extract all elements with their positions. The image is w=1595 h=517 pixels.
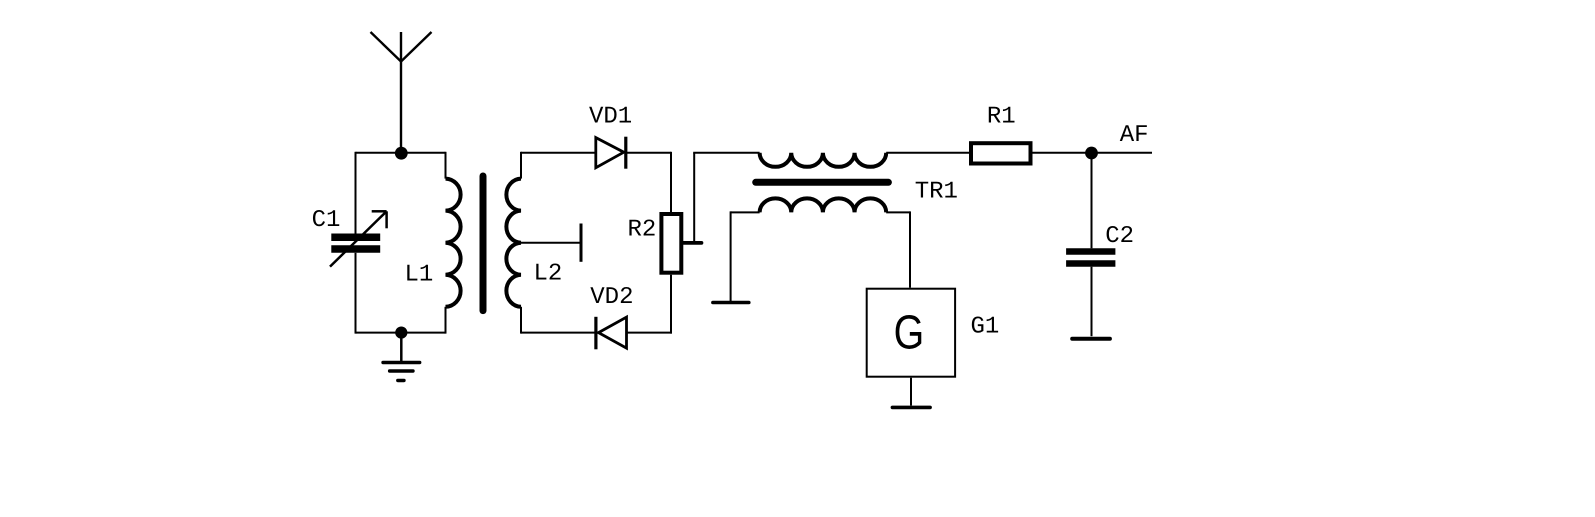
wire R1 to AF output — [1033, 152, 1153, 154]
transformer TR1 primary winding — [760, 153, 887, 167]
wire G1 bottom lead — [910, 378, 912, 406]
svg-text:R1: R1 — [987, 103, 1016, 130]
node junction AF/C2 — [1085, 147, 1098, 160]
capacitor C1 (variable) — [330, 211, 387, 266]
ground (chassis) at TR1 secondary — [713, 301, 749, 305]
inductor L1 — [446, 179, 461, 307]
wire L1 top lead — [445, 152, 447, 179]
wire secondary right down to G1 — [909, 211, 911, 287]
svg-text:G: G — [894, 306, 925, 359]
svg-text:G1: G1 — [970, 313, 999, 340]
transformer TR1 secondary winding — [760, 198, 887, 212]
wire L1 bottom lead — [445, 307, 447, 334]
wire L2 center tap — [521, 242, 581, 244]
wire wiper up to TR1 primary — [693, 153, 695, 243]
wire C2 bottom lead — [1091, 267, 1093, 337]
svg-text:L1: L1 — [404, 262, 433, 289]
svg-text:TR1: TR1 — [915, 179, 958, 206]
node junction bottom wire/ground — [395, 327, 407, 339]
wire top of tank loop — [356, 152, 446, 154]
wire corner down to R2 — [670, 152, 672, 213]
wire VD1 to corner — [626, 152, 671, 154]
wire bottom rail to VD2 — [521, 332, 599, 334]
svg-text:VD1: VD1 — [589, 104, 632, 131]
wire left edge above C1 — [355, 152, 357, 234]
inductor L2 — [506, 179, 521, 307]
wire bottom of tank loop — [356, 332, 446, 334]
transformer core L1/L2 — [480, 176, 487, 311]
ground (chassis) at G1 — [892, 406, 930, 410]
svg-text:AF: AF — [1120, 122, 1149, 149]
diode VD1 — [596, 137, 626, 169]
svg-text:R2: R2 — [627, 217, 656, 244]
ground (chassis) at C2 — [1072, 337, 1110, 341]
wire junction down to C2 — [1091, 153, 1093, 249]
resistor R2 — [661, 214, 681, 273]
wire R2 bottom lead — [670, 275, 672, 334]
wire antenna ground stem — [400, 333, 403, 362]
antenna — [371, 32, 432, 153]
wire to TR1 primary — [693, 152, 759, 154]
svg-text:VD2: VD2 — [590, 284, 633, 311]
wire top rail L2 to VD1 — [521, 152, 596, 154]
svg-text:C2: C2 — [1105, 223, 1134, 250]
resistor R1 — [971, 143, 1031, 163]
wire TR1 primary to R1 — [886, 152, 969, 154]
node junction antenna/top wire — [395, 147, 408, 160]
generator G1 — [867, 289, 955, 377]
wire VD2 to corner — [627, 332, 673, 334]
svg-text:C1: C1 — [312, 207, 341, 234]
wire secondary left down — [730, 211, 732, 301]
capacitor C2 — [1066, 252, 1115, 264]
wire secondary left lead — [731, 211, 760, 213]
wire secondary right lead — [886, 211, 910, 213]
transformer TR1 core — [756, 179, 889, 186]
diode VD2 — [596, 317, 627, 350]
wire L2 bottom lead — [520, 307, 522, 334]
svg-text:L2: L2 — [533, 261, 562, 288]
wire R2 wiper tap — [683, 241, 701, 245]
wire left edge below C1 — [355, 253, 357, 334]
wire L2 top lead — [520, 152, 522, 179]
terminal bar at tap — [580, 224, 583, 262]
ground (earth) at tank bottom — [383, 363, 420, 381]
